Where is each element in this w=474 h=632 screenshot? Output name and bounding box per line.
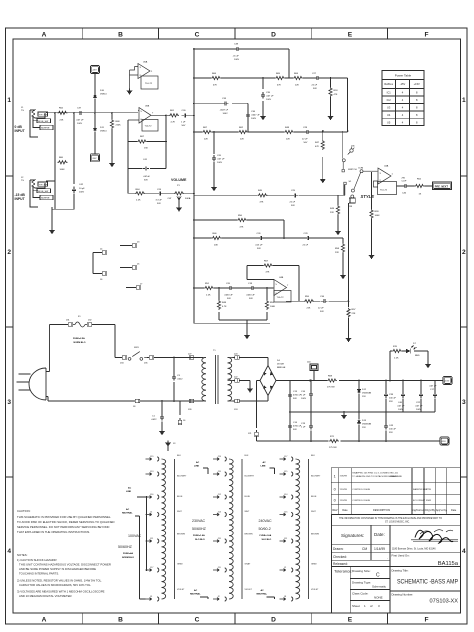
svg-text:.0022: .0022	[151, 419, 157, 421]
svg-text:50V: 50V	[249, 298, 253, 300]
svg-text:.0022: .0022	[177, 379, 183, 381]
svg-text:B: B	[118, 32, 123, 39]
capacitor C43	[385, 412, 387, 441]
svg-text:.0033 uF: .0033 uF	[246, 295, 255, 297]
capacitor C40	[402, 381, 404, 413]
jack J36	[350, 147, 355, 152]
capacitor C42	[72, 187, 76, 194]
svg-text:FUSE=4A: FUSE=4A	[123, 552, 133, 555]
bridge minus out	[257, 381, 303, 442]
resistor R71 275ohm	[329, 439, 339, 442]
svg-text:22K: 22K	[204, 139, 208, 141]
svg-text:2: 2	[7, 249, 11, 256]
capacitor C3 across	[173, 358, 175, 402]
svg-text:50/60HZ: 50/60HZ	[118, 545, 133, 549]
svg-text:VIOLET: VIOLET	[177, 589, 185, 591]
svg-text:240VAC: 240VAC	[259, 519, 273, 523]
svg-text:Drawing Number:: Drawing Number:	[392, 593, 414, 597]
transformer winding column 1	[146, 457, 175, 601]
svg-text:22 uF: 22 uF	[312, 85, 318, 87]
svg-text:15V: 15V	[362, 396, 366, 398]
svg-text:Schematic: Schematic	[372, 585, 387, 589]
fuse F1	[66, 323, 73, 326]
+15V box right	[440, 380, 443, 382]
mid tap to gnd	[239, 381, 250, 387]
svg-text:15V: 15V	[362, 427, 366, 429]
gnd under fb	[245, 333, 250, 339]
svg-text:GRAY: GRAY	[177, 563, 183, 566]
R49 22K to gnd	[337, 195, 339, 229]
connector J3	[130, 244, 137, 247]
connector J27 primary top	[189, 356, 196, 359]
svg-text:WHT: WHT	[245, 511, 250, 513]
junction dots	[54, 112, 113, 114]
svg-text:BLU/WHT: BLU/WHT	[177, 476, 187, 478]
svg-text:.015 uF: .015 uF	[255, 245, 263, 247]
svg-text:Drawn:: Drawn:	[333, 547, 344, 551]
svg-text:Class Code:: Class Code:	[352, 592, 369, 596]
svg-text:-15V: -15V	[441, 441, 446, 443]
svg-text:CM: CM	[362, 547, 367, 551]
gnd top of col1	[167, 446, 169, 451]
jack J2	[30, 180, 45, 207]
wire J1 tip to U5B	[46, 112, 138, 114]
svg-text:.047 uF: .047 uF	[429, 386, 437, 388]
svg-text:E: E	[348, 617, 353, 624]
svg-text:230VAC: 230VAC	[192, 519, 206, 523]
diode D11 branch	[94, 113, 96, 154]
svg-text:Sheet: Sheet	[352, 604, 360, 608]
svg-text:.0033 uF: .0033 uF	[224, 295, 233, 297]
svg-text:100V: 100V	[251, 118, 257, 120]
svg-text:U4A: U4A	[384, 165, 389, 168]
svg-text:U5B: U5B	[145, 106, 150, 108]
svg-text:Released:: Released:	[333, 562, 348, 566]
svg-text:U5: U5	[387, 120, 391, 124]
svg-text:3.3 uF: 3.3 uF	[156, 200, 163, 202]
svg-text:22K: 22K	[307, 308, 311, 310]
bridge plus out	[276, 380, 310, 382]
svg-text:BLUE: BLUE	[177, 496, 183, 498]
svg-text:47K: 47K	[334, 94, 338, 96]
svg-text:22 uF: 22 uF	[303, 245, 309, 247]
svg-text:22K: 22K	[240, 139, 244, 141]
resistor R48b	[284, 130, 294, 133]
capacitor C46 out	[402, 184, 409, 188]
capacitor C19b	[310, 412, 312, 441]
svg-text:22 uF: 22 uF	[318, 308, 324, 310]
svg-text:NEUTRAL: NEUTRAL	[257, 593, 268, 596]
svg-text:Drawing Title:: Drawing Title:	[392, 569, 409, 573]
svg-text:100K: 100K	[60, 169, 66, 171]
wire rail y78	[194, 78, 348, 132]
svg-text:of: of	[370, 604, 373, 608]
svg-text:ST. LOUIS MUSIC, INC.: ST. LOUIS MUSIC, INC.	[385, 522, 410, 524]
svg-text:TL0-72: TL0-72	[380, 190, 388, 192]
svg-text:THIS UNIT CONTAINS HAZARDOUS V: THIS UNIT CONTAINS HAZARDOUS VOLTAGE. DI…	[19, 563, 111, 567]
op-amp U5A	[130, 64, 159, 90]
connector J5	[130, 266, 137, 269]
svg-text:BLU/WHT: BLU/WHT	[311, 476, 321, 478]
svg-text:22K: 22K	[60, 120, 64, 122]
svg-text:1 uF: 1 uF	[301, 395, 306, 397]
resistor R68	[111, 113, 113, 161]
-15V box	[91, 154, 100, 162]
svg-text:275 5W: 275 5W	[327, 387, 335, 389]
resistor R57g vert	[347, 308, 350, 318]
svg-text:TO AVOID RISK OF ELECTRIC SHOC: TO AVOID RISK OF ELECTRIC SHOCK, REFER S…	[17, 520, 115, 524]
stub C-gnd x214	[213, 132, 215, 185]
svg-text:100VAC: 100VAC	[128, 534, 142, 538]
svg-text:VOLUME: VOLUME	[171, 178, 187, 182]
connector J7	[134, 286, 141, 289]
svg-text:1) CAUTION SHOCK HAZARD!: 1) CAUTION SHOCK HAZARD!	[17, 558, 57, 562]
svg-text:100V: 100V	[217, 162, 223, 164]
capacitor C30	[182, 113, 189, 117]
svg-text:NORM BLO: NORM BLO	[122, 557, 134, 559]
resistor R64 2.2K	[135, 192, 145, 195]
main vertical bus	[194, 49, 348, 323]
jack J1	[30, 110, 45, 137]
svg-text:47K: 47K	[315, 146, 319, 148]
svg-text:1N5363B: 1N5363B	[362, 393, 372, 395]
svg-text:DESCRIPTION: DESCRIPTION	[373, 509, 390, 512]
svg-text:15K: 15K	[144, 148, 148, 150]
wire J2 tip	[46, 180, 55, 182]
svg-text:1 uF: 1 uF	[181, 122, 186, 124]
stub C35 gnd	[262, 78, 264, 114]
svg-text:First Used On:: First Used On:	[392, 554, 410, 558]
resistor R57 fb	[263, 264, 273, 267]
stub C36	[247, 103, 249, 132]
svg-text:Date:: Date:	[374, 532, 385, 537]
+15V box	[91, 66, 100, 74]
svg-text:REV: REV	[332, 509, 337, 512]
svg-text:TL0-72: TL0-72	[145, 83, 153, 85]
row ticks right	[461, 176, 468, 477]
svg-text:1/14/99: 1/14/99	[374, 547, 385, 551]
svg-text:50V: 50V	[182, 125, 186, 127]
connector J4	[100, 251, 107, 254]
svg-text:CONTROL ISSUE: CONTROL ISSUE	[352, 489, 370, 491]
svg-text:07S103-XX: 07S103-XX	[430, 599, 459, 605]
capacitor C34 out	[321, 299, 328, 303]
svg-text:0: 0	[334, 488, 336, 492]
svg-text:.: .	[387, 556, 388, 560]
svg-text:GRAY: GRAY	[311, 563, 317, 566]
svg-text:+15V: +15V	[414, 82, 420, 86]
capacitor C37	[77, 111, 84, 115]
svg-text:SW1: SW1	[134, 347, 140, 349]
capacitor C16	[309, 391, 313, 398]
svg-text:D: D	[271, 32, 276, 39]
revision table	[331, 468, 460, 515]
svg-text:3: 3	[7, 399, 11, 406]
svg-text:22K: 22K	[295, 85, 299, 87]
resistor R46 rail y238	[212, 236, 222, 239]
svg-text:LINE: LINE	[261, 466, 267, 468]
svg-text:50V: 50V	[257, 248, 261, 250]
svg-text:B: B	[118, 617, 123, 624]
output rail U4A	[397, 185, 433, 187]
svg-text:50V: 50V	[320, 311, 324, 313]
svg-text:-15V: -15V	[400, 82, 406, 86]
svg-text:ECO#99047: ECO#99047	[413, 500, 426, 502]
op-amp U5B	[128, 108, 169, 132]
svg-text:100 uF: 100 uF	[389, 398, 396, 400]
svg-text:3: 3	[462, 399, 466, 406]
PRE NEXT box	[433, 182, 452, 190]
svg-text:35V: 35V	[389, 401, 393, 403]
capacitor C35 vert	[261, 92, 265, 99]
svg-text:100V: 100V	[301, 398, 307, 400]
capacitor C28	[304, 130, 311, 134]
svg-text:50V: 50V	[227, 298, 231, 300]
power switch SW1	[120, 356, 127, 359]
svg-text:BA115a: BA115a	[438, 561, 459, 567]
svg-text:100V: 100V	[234, 59, 240, 61]
svg-text:22 uF: 22 uF	[290, 202, 296, 204]
svg-text:200V: 200V	[79, 192, 85, 194]
svg-text:U4: U4	[387, 113, 391, 117]
svg-text:.047 uF: .047 uF	[76, 120, 84, 122]
resistor R69 275ohm	[327, 379, 337, 382]
capacitor C20b	[227, 286, 234, 290]
resistor R55	[304, 300, 314, 303]
svg-text:VIOLET: VIOLET	[245, 589, 253, 591]
svg-text:AC: AC	[128, 487, 132, 490]
svg-text:WHT: WHT	[311, 511, 316, 513]
svg-text:BLUE: BLUE	[311, 496, 317, 498]
svg-text:22K: 22K	[335, 252, 339, 254]
svg-text:F: F	[424, 617, 428, 624]
svg-text:AC: AC	[263, 461, 267, 464]
svg-text:CAPACITOR VALUES IN MICROFARAD: CAPACITOR VALUES IN MICROFARADS, 50V 10%…	[19, 583, 92, 587]
svg-text:4: 4	[7, 548, 11, 555]
svg-text:TOUCHING INTERNAL PARTS.: TOUCHING INTERNAL PARTS.	[19, 572, 59, 576]
resistor R53 vert	[329, 87, 332, 97]
svg-text:1N914: 1N914	[100, 131, 107, 133]
capacitor C29	[305, 236, 312, 240]
transformer winding column 2	[213, 457, 242, 601]
svg-text:VIOLET: VIOLET	[311, 589, 319, 591]
svg-text:NOTES:: NOTES:	[17, 553, 28, 557]
resistor R47 vert	[321, 140, 324, 150]
svg-text:50KA: 50KA	[185, 197, 191, 200]
svg-text:RefDes: RefDes	[384, 82, 393, 86]
svg-text:AC: AC	[126, 508, 130, 511]
switch S1	[344, 170, 378, 198]
svg-text:7/01/99: 7/01/99	[340, 500, 348, 502]
connector J20 secondary top	[233, 356, 240, 359]
svg-text:TL0-72: TL0-72	[277, 297, 285, 299]
svg-text:A: A	[42, 617, 47, 624]
svg-text:BLK: BLK	[311, 455, 316, 457]
resistor R64b	[293, 76, 303, 79]
connector J40 above rail	[310, 364, 318, 381]
svg-text:SLVE_SW: SLVE_SW	[38, 121, 49, 123]
svg-text:2) UNLESS NOTED, RESISTOR VALU: 2) UNLESS NOTED, RESISTOR VALUES IN OHMS…	[17, 579, 102, 583]
pot P1	[174, 192, 184, 195]
svg-text:2.2K: 2.2K	[206, 295, 211, 297]
svg-text:CLIP: CLIP	[402, 181, 407, 183]
capacitor C21b	[420, 381, 422, 413]
AC plug P1	[17, 325, 67, 401]
svg-text:U5A: U5A	[143, 61, 148, 64]
-15V box right	[437, 440, 441, 442]
svg-text:1: 1	[7, 97, 11, 104]
svg-text:Drawing Type:: Drawing Type:	[352, 581, 371, 585]
signature logo squiggle	[411, 530, 458, 543]
svg-text:INPUT: INPUT	[15, 129, 26, 133]
capacitor C27	[314, 76, 321, 80]
svg-text:C: C	[195, 32, 200, 39]
svg-text:100V: 100V	[416, 409, 422, 411]
resistor R45	[258, 194, 268, 197]
svg-text:M00092: M00092	[390, 476, 399, 478]
transformer winding column 3	[280, 457, 309, 601]
svg-text:.047uF: .047uF	[143, 176, 150, 178]
svg-text:SLO BLO: SLO BLO	[195, 539, 205, 541]
svg-text:Power Table: Power Table	[395, 74, 412, 78]
capacitor C-x214 vert	[212, 155, 216, 162]
capacitor C38	[234, 47, 241, 51]
svg-text:A: A	[42, 32, 47, 39]
vertical2	[73, 113, 75, 184]
svg-text:SLEEVE: SLEEVE	[41, 128, 50, 130]
svg-text:Signatures:: Signatures:	[341, 533, 364, 538]
J18 line down to headphone rail	[348, 203, 350, 301]
svg-text:.0047 uF: .0047 uF	[251, 115, 260, 117]
svg-text:F: F	[424, 32, 428, 39]
op-amp U4A	[374, 168, 397, 195]
gnd mid rail	[342, 413, 347, 419]
connector J18 below switch	[349, 198, 355, 203]
svg-text:Orig'd By: Orig'd By	[425, 509, 436, 512]
svg-text:COM: COM	[358, 168, 363, 170]
zener D12	[358, 381, 360, 413]
resistor R62	[58, 111, 68, 114]
svg-text:BLK: BLK	[177, 455, 182, 457]
svg-text:2: 2	[462, 249, 466, 256]
wire fuse to switch	[94, 325, 120, 358]
svg-text:BROWN: BROWN	[311, 534, 319, 536]
svg-text:100V: 100V	[223, 113, 229, 115]
title block	[331, 514, 460, 613]
svg-text:47K: 47K	[277, 85, 281, 87]
capacitor C24	[157, 191, 164, 195]
wire rail y103.3	[194, 102, 248, 104]
capacitor C39	[385, 381, 387, 413]
R59 100K to gnd	[371, 172, 373, 253]
capacitor C14	[288, 423, 292, 430]
svg-text:.047 uF: .047 uF	[415, 406, 423, 408]
svg-text:0: 0	[334, 499, 336, 503]
svg-text:AND 10 MEGOHM DIGITAL VOLTMETE: AND 10 MEGOHM DIGITAL VOLTMETER.	[19, 594, 72, 598]
svg-text:E: E	[348, 32, 353, 39]
resistor R48 4.7K vert	[217, 300, 220, 310]
capacitor C1 to gnd	[161, 401, 163, 429]
resistor R70 2.2K	[392, 349, 402, 352]
svg-text:47K: 47K	[266, 272, 270, 274]
svg-text:100 uF: 100 uF	[389, 429, 396, 431]
svg-text:1180 Borman Drive, St. Louis,: 1180 Borman Drive, St. Louis, MO 63146	[392, 548, 436, 551]
svg-text:NEUTRAL: NEUTRAL	[122, 512, 133, 515]
svg-text:4.7K: 4.7K	[222, 306, 227, 308]
svg-text:.047 uF: .047 uF	[217, 159, 225, 161]
svg-text:IC1: IC1	[387, 91, 392, 95]
svg-text:NONE: NONE	[374, 596, 383, 600]
svg-text:275 5W: 275 5W	[329, 447, 337, 449]
svg-text:1: 1	[462, 97, 466, 104]
svg-text:Checked:: Checked:	[333, 555, 347, 559]
resistor R66	[211, 76, 221, 79]
connector J24 secondary bottom	[233, 399, 240, 402]
svg-text:LINE: LINE	[194, 466, 200, 468]
svg-text:1: 1	[334, 475, 336, 479]
svg-text:-15V: -15V	[92, 158, 97, 160]
column ticks bottom	[82, 613, 387, 624]
resistor R67b	[202, 130, 212, 133]
svg-text:AND BE SURE POWER SUPPLY IS DI: AND BE SURE POWER SUPPLY IS DISCHARGED B…	[19, 567, 96, 571]
resistor R61 out 4.7K	[169, 114, 179, 117]
connector J6m	[100, 272, 107, 275]
svg-text:C: C	[195, 617, 200, 624]
svg-text:10 pF: 10 pF	[79, 188, 85, 190]
connector J6b	[179, 401, 181, 415]
resistor R62b	[238, 130, 248, 133]
capacitor C18	[249, 286, 256, 290]
svg-text:IC2: IC2	[387, 98, 392, 102]
svg-text:100V: 100V	[77, 123, 83, 125]
svg-text:50/60HZ: 50/60HZ	[192, 527, 207, 531]
svg-text:SLO BLO: SLO BLO	[262, 539, 272, 541]
resistor R60	[58, 161, 68, 164]
svg-text:50V: 50V	[144, 180, 148, 182]
svg-text:1 uF: 1 uF	[301, 427, 306, 429]
rail y238	[194, 237, 343, 239]
svg-text:4.7K: 4.7K	[171, 122, 176, 124]
svg-text:U3: U3	[387, 106, 391, 110]
svg-text:NEUTRAL: NEUTRAL	[190, 593, 201, 596]
svg-text:BROWN: BROWN	[245, 534, 253, 536]
svg-text:35V: 35V	[389, 432, 393, 434]
svg-text:22K: 22K	[286, 139, 290, 141]
svg-text:D: D	[271, 617, 276, 624]
svg-text:2.2K: 2.2K	[136, 200, 141, 202]
svg-text:SWITCH: SWITCH	[348, 169, 357, 171]
diode bridge D4	[260, 366, 276, 396]
capacitor C13	[289, 380, 291, 382]
svg-text:THE INFORMATION CONTAINED IN T: THE INFORMATION CONTAINED IN THIS DRAWIN…	[339, 517, 442, 520]
bottom wire to ground	[52, 207, 74, 228]
vertical1	[54, 113, 56, 210]
svg-text:20K: 20K	[214, 245, 218, 247]
svg-text:CONTROL ISSUE: CONTROL ISSUE	[352, 500, 370, 502]
svg-text:THAT EXPLAINED IN THE OPERATIN: THAT EXPLAINED IN THE OPERATING INSTRUCT…	[17, 530, 90, 534]
svg-text:SLEEVE: SLEEVE	[41, 198, 50, 200]
op-amp U4B	[274, 280, 291, 303]
svg-text:100K: 100K	[270, 306, 276, 308]
svg-text:U4B: U4B	[279, 277, 284, 279]
svg-text:FUSE=1.6A: FUSE=1.6A	[260, 534, 272, 537]
svg-text:SLVE_SW: SLVE_SW	[38, 191, 49, 193]
svg-text:Drawing Size:: Drawing Size:	[352, 569, 371, 573]
wire rail y132	[194, 131, 348, 133]
svg-text:SERVICE PERSONNEL. DO NOT PER: SERVICE PERSONNEL. DO NOT PERFORM ANY SE…	[17, 525, 109, 529]
svg-text:22 uF: 22 uF	[302, 139, 308, 141]
svg-text:220K: 220K	[116, 125, 122, 127]
